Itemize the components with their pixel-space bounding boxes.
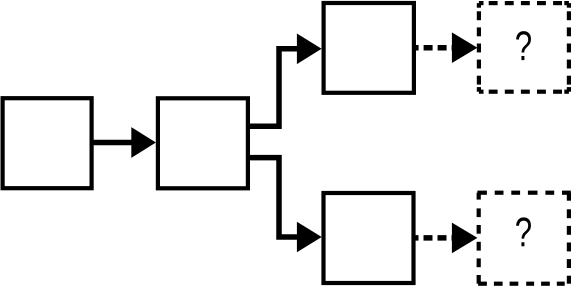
dashed box D1 (top right) xyxy=(479,3,569,92)
arrowhead A4 xyxy=(452,32,478,63)
wire W1: B1 to B2 xyxy=(92,140,133,146)
wire W2: B2 to B3 (upper branch) xyxy=(248,49,298,127)
arrowhead A1 xyxy=(131,127,156,158)
box B1 (left) xyxy=(3,98,92,188)
label ? in D2 xyxy=(516,217,531,246)
dashed wire W4: B3 to D1 xyxy=(414,45,452,51)
box B3 (top) xyxy=(324,3,414,93)
dashed wire W5: B4 to D2 xyxy=(414,235,453,241)
arrowhead A3 xyxy=(297,222,322,253)
box B2 (middle) xyxy=(158,98,248,188)
label ? in D1 xyxy=(516,31,531,60)
wire W3: B2 to B4 (lower branch) xyxy=(248,158,298,237)
arrowhead A5 xyxy=(452,223,478,254)
box B4 (bottom) xyxy=(324,193,414,283)
dashed box D2 (bottom right) xyxy=(477,193,570,284)
arrowhead A2 xyxy=(297,34,322,65)
